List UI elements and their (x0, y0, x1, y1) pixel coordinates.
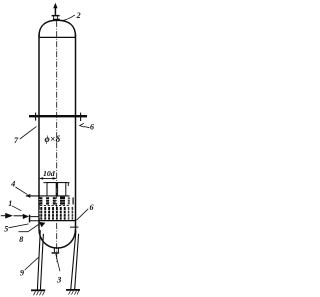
label 6 (lower right) (77, 203, 94, 220)
right leg (71, 231, 79, 290)
svg-text:ϕ×δ: ϕ×δ (45, 134, 61, 144)
support grid line (39, 220, 76, 222)
shell right wall (75, 35, 77, 229)
svg-text:1: 1 (8, 199, 12, 208)
top head (dome) (39, 20, 76, 36)
label 7 (14, 126, 37, 145)
label 6 (upper, flange) (80, 123, 94, 132)
packing tier 3 bars (39, 207, 75, 220)
bottom head (39, 229, 76, 248)
label 9 (20, 257, 38, 277)
svg-text:7: 7 (14, 136, 19, 145)
svg-text:10d: 10d (43, 169, 55, 178)
shell left wall (38, 35, 40, 229)
packing tier 2 bars (39, 197, 74, 205)
right foot plate (66, 290, 80, 295)
label 5 (4, 224, 28, 234)
flange bolt tick right (80, 113, 82, 121)
svg-text:6: 6 (90, 123, 94, 132)
internals top line (43, 183, 69, 186)
top nozzle flange (52, 15, 60, 20)
label 8 (19, 222, 46, 244)
left leg (37, 230, 43, 289)
label 2 (61, 11, 81, 21)
svg-text:3: 3 (56, 275, 62, 285)
label 3 (56, 254, 62, 284)
svg-text:4: 4 (10, 179, 15, 188)
internals box right (58, 183, 66, 196)
centerline (56, 21, 58, 262)
right leg top plate (70, 226, 78, 228)
internals support plate line (26, 195, 70, 197)
bottom outlet nozzle (52, 248, 60, 254)
top outlet arrow (53, 3, 57, 15)
internals box left (47, 183, 56, 196)
flange bolt tick left (35, 113, 37, 121)
girth flange ring (29, 115, 87, 117)
feed arrow (1, 213, 29, 219)
10d dimension line with arrows (39, 177, 56, 180)
10d dimension text (43, 169, 55, 178)
svg-text:8: 8 (19, 235, 23, 244)
label 4 (10, 179, 30, 197)
left foot plate (31, 290, 45, 295)
svg-text:5: 5 (4, 225, 8, 234)
dashed row under tier 2 (40, 204, 70, 206)
inlet nozzle (29, 215, 39, 223)
phi x delta size annotation (45, 134, 61, 144)
svg-text:6: 6 (90, 203, 94, 212)
label 1 (8, 199, 21, 211)
svg-text:9: 9 (20, 269, 24, 278)
top head weld line (39, 36, 76, 38)
svg-text:2: 2 (76, 11, 81, 20)
